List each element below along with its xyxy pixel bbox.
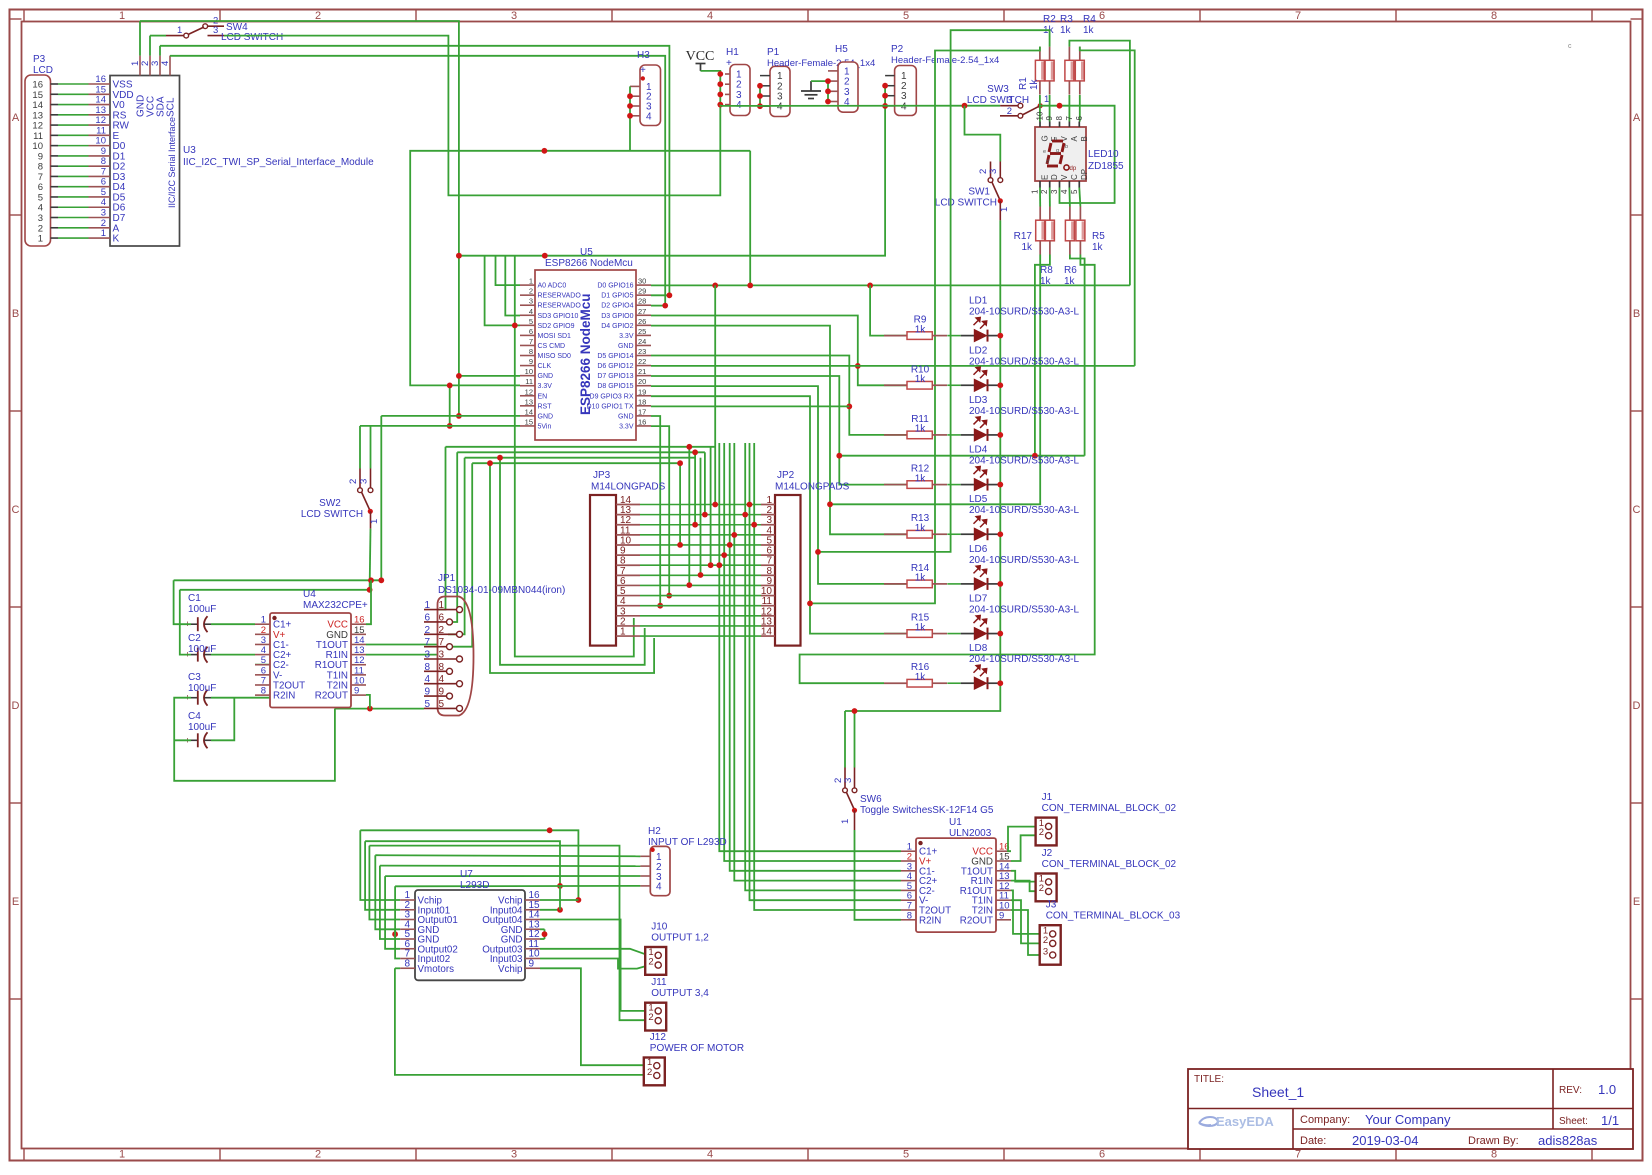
resistor R3 1k (1060, 14, 1074, 95)
header H3 (630, 50, 661, 126)
svg-text:P2: P2 (891, 44, 904, 55)
wire H2 line2 (380, 865, 641, 868)
svg-text:SW3: SW3 (987, 84, 1009, 95)
svg-text:1k: 1k (1029, 78, 1040, 90)
svg-text:3: 3 (438, 650, 444, 661)
svg-text:RESERVADO: RESERVADO (538, 303, 582, 310)
resistor R1 1k (1018, 47, 1044, 95)
svg-text:204-10SURD/S530-A3-L: 204-10SURD/S530-A3-L (969, 456, 1079, 467)
svg-text:H1: H1 (726, 47, 739, 58)
IC U4 MAX232CPE+ (255, 589, 368, 708)
svg-text:6: 6 (424, 612, 430, 623)
wire U7 pin9 to J12 pin1 (540, 968, 646, 1065)
svg-text:+: + (726, 58, 732, 69)
svg-text:3: 3 (988, 169, 999, 174)
svg-text:29: 29 (638, 287, 646, 296)
svg-text:U7: U7 (460, 869, 473, 880)
svg-text:1: 1 (119, 1149, 125, 1161)
svg-text:+: + (640, 65, 646, 76)
svg-text:INPUT OF L293D: INPUT OF L293D (648, 837, 727, 848)
wire H2 line3 drop (385, 876, 400, 949)
wire ESP pin1 (496, 256, 521, 285)
svg-text:K: K (113, 234, 120, 245)
svg-text:6: 6 (1099, 1149, 1105, 1161)
svg-text:1: 1 (1031, 189, 1040, 194)
svg-text:1k: 1k (915, 523, 927, 534)
wire H2 line1 drop (375, 855, 400, 929)
svg-text:26: 26 (638, 317, 646, 326)
terminal J12 POWER OF MOTOR (644, 1032, 744, 1085)
svg-text:J1: J1 (1042, 792, 1053, 803)
svg-text:LCD SWITCH: LCD SWITCH (935, 198, 997, 209)
svg-text:M14LONGPADS: M14LONGPADS (775, 482, 850, 493)
svg-text:1: 1 (999, 207, 1010, 212)
wire R2 bottom to LED10 (1049, 95, 1051, 122)
svg-text:8: 8 (907, 910, 912, 921)
svg-text:CS CMD: CS CMD (538, 343, 566, 350)
svg-text:2: 2 (424, 625, 430, 636)
svg-text:3: 3 (213, 25, 218, 36)
LED LD4 204-10SURD/S530-A3-L (947, 445, 1079, 491)
wire JP1 riser 6 (448, 452, 457, 622)
svg-text:b: b (1065, 144, 1068, 150)
svg-text:2: 2 (1007, 106, 1012, 117)
svg-text:A: A (12, 112, 20, 124)
svg-text:VCC: VCC (686, 49, 715, 64)
svg-text:22: 22 (638, 357, 646, 366)
svg-text:V: V (1060, 174, 1069, 180)
wire D6 join (651, 365, 1135, 367)
wire R3 bottom to LED10 (1068, 95, 1070, 122)
connector JP3 M14LONGPADS (590, 470, 666, 646)
wire U1 GND to J1 pin2 (1011, 835, 1042, 861)
wire stair s2 drop (365, 841, 400, 910)
wire ladder vert A (679, 463, 681, 545)
terminal J1 CON_TERMINAL_BLOCK_02 (1036, 792, 1177, 845)
junction U7 GND pins (392, 931, 398, 937)
svg-text:POWER OF MOTOR: POWER OF MOTOR (650, 1043, 744, 1054)
terminal J11 OUTPUT 3,4 (645, 977, 709, 1030)
svg-text:Header-Female-2.54_1x4: Header-Female-2.54_1x4 (767, 58, 875, 69)
svg-text:U5: U5 (580, 247, 593, 258)
wire U7 pin15 riser (540, 909, 560, 911)
svg-text:7: 7 (1065, 116, 1074, 121)
svg-text:LD2: LD2 (969, 345, 988, 356)
junctions H1 pins (717, 71, 723, 77)
svg-text:1: 1 (840, 819, 851, 824)
svg-text:C: C (1633, 504, 1641, 516)
wire U3 pin2 riser (149, 36, 151, 56)
wire U7 pin8 wire (395, 967, 400, 969)
switch SW1 LCD SWITCH (935, 162, 1010, 221)
svg-text:P1: P1 (767, 47, 780, 58)
svg-text:204-10SURD/S530-A3-L: 204-10SURD/S530-A3-L (969, 654, 1079, 665)
svg-text:8: 8 (1055, 116, 1064, 121)
svg-text:GND: GND (538, 373, 554, 380)
svg-text:H3: H3 (637, 50, 650, 61)
wire band B4 (472, 462, 680, 464)
svg-text:2: 2 (647, 1067, 652, 1078)
wire ESP 5Vin pin15 (360, 425, 520, 427)
svg-text:SCL: SCL (166, 97, 177, 117)
wire LCD SWITCH to H1 bus (224, 36, 720, 196)
wire ladder vert D (714, 285, 716, 504)
resistor R6 1k (1064, 207, 1085, 288)
svg-text:D: D (12, 700, 20, 712)
wire H2 line1 (375, 855, 640, 856)
svg-text:J10: J10 (651, 922, 668, 933)
wire D10 join (651, 405, 849, 407)
wire R2 top (818, 30, 1050, 552)
svg-text:e: e (1043, 149, 1046, 155)
svg-text:16: 16 (638, 417, 646, 426)
wire header pin4 net to SW3 (719, 105, 721, 106)
svg-text:SD3 GPIO10: SD3 GPIO10 (538, 313, 579, 320)
wire U7 Vmotors to J12 pin2 (395, 968, 646, 1075)
wire R1 bottom to LED10 (1039, 95, 1041, 122)
IC U3 IIC_I2C_TWI_SP_Serial_Interface_Module (89, 56, 375, 246)
svg-text:4: 4 (1060, 189, 1069, 194)
logo EasyEDA (1199, 1114, 1274, 1129)
svg-text:EasyEDA: EasyEDA (1216, 1114, 1274, 1129)
svg-text:Sheet:: Sheet: (1559, 1116, 1588, 1127)
svg-text:1k: 1k (1083, 25, 1095, 36)
header P1 Header-Female-2.54_1x4 (760, 47, 875, 117)
svg-text:P3: P3 (33, 54, 46, 65)
wire D0 feed R9 (870, 285, 907, 335)
wire R1 top (810, 47, 1040, 604)
svg-text:B: B (1080, 136, 1089, 141)
svg-text:c: c (1568, 43, 1572, 50)
wire SW1 to LED cathode bus (999, 220, 1001, 335)
terminal J2 CON_TERMINAL_BLOCK_02 (1036, 848, 1177, 901)
wire R6 bottom long (800, 255, 1095, 684)
svg-text:1k: 1k (1092, 242, 1104, 253)
title block (1188, 1069, 1633, 1149)
svg-text:18: 18 (638, 397, 646, 406)
wire ladder vert B (694, 452, 696, 524)
svg-text:24: 24 (638, 337, 646, 346)
svg-text:REV:: REV: (1559, 1085, 1582, 1096)
svg-text:9: 9 (999, 910, 1004, 921)
svg-text:R1: R1 (1018, 77, 1029, 90)
capacitor C2 100uF (185, 633, 217, 663)
svg-text:D9 GPIO3 RX: D9 GPIO3 RX (590, 393, 634, 400)
terminal J10 OUTPUT 1,2 (645, 922, 709, 975)
svg-text:100uF: 100uF (188, 683, 216, 694)
svg-text:M14LONGPADS: M14LONGPADS (591, 482, 666, 493)
svg-text:LCD: LCD (33, 65, 53, 76)
wire U1 R1OUT to J3 pin1 (1011, 890, 1046, 934)
wire riser x449 (449, 385, 451, 426)
svg-text:LD7: LD7 (969, 594, 988, 605)
svg-text:DS1034-01-09MBN044(iron): DS1034-01-09MBN044(iron) (438, 585, 565, 596)
wire ESP GND pin14 (381, 415, 520, 417)
wires P3 to U3 (58, 84, 89, 238)
wire H5 pin bus (827, 81, 829, 101)
svg-text:5: 5 (903, 1149, 909, 1161)
wire C1 left loop (174, 580, 191, 624)
svg-text:LCD SWITCH: LCD SWITCH (221, 32, 283, 43)
wire LED10 to R6 (1079, 188, 1080, 207)
svg-text:7: 7 (1295, 10, 1301, 22)
svg-text:13: 13 (525, 397, 533, 406)
svg-text:g: g (1056, 148, 1059, 154)
svg-text:SW1: SW1 (968, 187, 990, 198)
svg-text:7: 7 (529, 337, 533, 346)
wire SW3 to LED10 common (1040, 106, 1114, 203)
svg-text:U1: U1 (949, 817, 962, 828)
svg-text:28: 28 (638, 297, 646, 306)
svg-text:LCD SWITCH: LCD SWITCH (967, 95, 1029, 106)
wire U1 VCC to J1 pin1 (1008, 827, 1042, 852)
svg-text:8: 8 (1491, 10, 1497, 22)
wire C2 right to U4 pin4 (211, 654, 255, 656)
resistor R13 1k (884, 513, 947, 538)
wire U7 Input03 to J10 pin2 (540, 959, 648, 969)
wire stair s2 (365, 841, 560, 886)
svg-text:LED10: LED10 (1088, 149, 1119, 160)
svg-text:5Vin: 5Vin (538, 423, 552, 430)
svg-text:2: 2 (1039, 883, 1044, 894)
svg-text:4: 4 (901, 101, 907, 112)
svg-text:1k: 1k (1060, 25, 1072, 36)
svg-text:ESP8266 NodeMcu: ESP8266 NodeMcu (578, 293, 593, 415)
wire D3 to R10 (651, 316, 907, 386)
svg-text:2: 2 (348, 479, 359, 484)
wire ladder vert G (710, 447, 712, 565)
svg-text:CON_TERMINAL_BLOCK_03: CON_TERMINAL_BLOCK_03 (1046, 911, 1181, 922)
wire R5 bottom (1070, 255, 1085, 456)
svg-text:9: 9 (354, 686, 359, 697)
svg-text:C1: C1 (188, 593, 201, 604)
svg-text:LD5: LD5 (969, 494, 988, 505)
resistor R12 1k (884, 464, 947, 489)
svg-text:H5: H5 (835, 44, 848, 55)
svg-text:D4 GPIO2: D4 GPIO2 (601, 323, 633, 330)
svg-text:10: 10 (1036, 111, 1045, 120)
wire H3 to 3V3 net (410, 151, 750, 386)
svg-text:204-10SURD/S530-A3-L: 204-10SURD/S530-A3-L (969, 307, 1079, 318)
svg-text:3: 3 (1043, 947, 1048, 958)
svg-text:1: 1 (119, 10, 125, 22)
wire C2 left loop (180, 590, 191, 655)
wire to U1 pin5 (745, 443, 901, 890)
svg-text:R3: R3 (1060, 14, 1073, 25)
svg-text:GND: GND (618, 343, 634, 350)
svg-text:2: 2 (648, 1012, 653, 1023)
wire SCL net (170, 56, 665, 306)
svg-text:204-10SURD/S530-A3-L: 204-10SURD/S530-A3-L (969, 356, 1079, 367)
svg-text:C: C (12, 504, 20, 516)
wire ladder vert F (700, 458, 702, 575)
svg-text:5: 5 (438, 699, 444, 710)
wire GND line above U4 (174, 579, 382, 581)
svg-text:7: 7 (438, 637, 444, 648)
wire H2 line4 (395, 885, 640, 887)
svg-text:3: 3 (1050, 189, 1059, 194)
svg-text:IIC/I2C Serial Interface: IIC/I2C Serial Interface (167, 117, 177, 208)
svg-text:J12: J12 (650, 1032, 667, 1043)
junctions P2 pins (882, 83, 888, 89)
svg-text:21: 21 (638, 367, 646, 376)
wire H3 bus (629, 86, 631, 150)
IC U1 ULN2003 (901, 817, 1011, 932)
svg-text:D3 GPIO0: D3 GPIO0 (601, 313, 633, 320)
svg-text:C4: C4 (188, 711, 201, 722)
svg-text:R6: R6 (1064, 265, 1077, 276)
svg-text:MISO SD0: MISO SD0 (538, 353, 572, 360)
svg-text:6: 6 (1099, 10, 1105, 22)
wire JP1 riser 7 (448, 463, 472, 647)
svg-text:J2: J2 (1042, 848, 1053, 859)
wire C4 left (174, 739, 191, 741)
wire U7 Output03 to J10 pin1 (540, 949, 648, 956)
wire R2IN to JP1 pin5 (335, 708, 424, 710)
svg-text:D6 GPIO12: D6 GPIO12 (597, 363, 633, 370)
svg-text:Your Company: Your Company (1365, 1112, 1451, 1127)
power VCC (686, 49, 715, 71)
svg-text:D: D (1050, 174, 1059, 180)
svg-text:1: 1 (1044, 94, 1049, 105)
svg-text:3: 3 (843, 778, 854, 783)
wire GND net top (140, 21, 459, 376)
svg-text:1k: 1k (915, 672, 927, 683)
svg-text:IIC_I2C_TWI_SP_Serial_Interfac: IIC_I2C_TWI_SP_Serial_Interface_Module (183, 157, 374, 168)
wire to U1 pin7 (754, 443, 901, 910)
wire U1 T1OUT to J2 pin1 (1011, 871, 1041, 882)
wire JP1 riser 1 (437, 447, 446, 610)
wire D5 to R11 (651, 356, 907, 435)
svg-text:1k: 1k (915, 374, 927, 385)
switch SW2 LCD SWITCH (301, 469, 380, 529)
svg-text:Header-Female-2.54_1x4: Header-Female-2.54_1x4 (891, 55, 999, 66)
svg-text:SD2 GPIO9: SD2 GPIO9 (538, 323, 575, 330)
resistor R17 1k (1014, 207, 1045, 255)
wire SW2 pin2 up (359, 426, 361, 469)
svg-text:4: 4 (777, 102, 783, 113)
svg-text:5: 5 (424, 699, 430, 710)
svg-text:MOSI SD1: MOSI SD1 (538, 333, 572, 340)
svg-text:Toggle SwitchesSK-12F14 G5: Toggle SwitchesSK-12F14 G5 (860, 805, 994, 816)
wire U4 VCC riser (366, 580, 371, 624)
wire U1 R1IN to J2 pin2 (1011, 881, 1041, 892)
resistor R15 1k (884, 613, 947, 638)
svg-text:2: 2 (1040, 189, 1049, 194)
svg-text:LD6: LD6 (969, 544, 988, 555)
wire ladder vert E (688, 447, 690, 585)
svg-text:5: 5 (529, 317, 533, 326)
svg-text:EN: EN (538, 393, 548, 400)
svg-text:R5: R5 (1092, 231, 1105, 242)
svg-text:9: 9 (424, 687, 430, 698)
svg-text:R2OUT: R2OUT (960, 915, 993, 926)
wire D2 to SCL (651, 305, 665, 307)
wire C3 right to U4 pin5 (211, 665, 322, 698)
svg-text:R2IN: R2IN (273, 691, 295, 702)
svg-text:204-10SURD/S530-A3-L: 204-10SURD/S530-A3-L (969, 605, 1079, 616)
svg-text:100uF: 100uF (188, 604, 216, 615)
svg-text:14: 14 (525, 407, 533, 416)
svg-text:8: 8 (438, 662, 444, 673)
svg-text:B: B (12, 308, 19, 320)
wire C1 right to U4 pin1 (211, 623, 255, 625)
svg-text:H2: H2 (648, 826, 661, 837)
wire U7 right GND join (544, 929, 546, 939)
svg-text:Vchip: Vchip (498, 964, 523, 975)
svg-text:1: 1 (101, 228, 106, 239)
svg-text:U3: U3 (183, 145, 196, 156)
wire underJP3 line2 (500, 458, 645, 665)
wire GND to H5 (811, 80, 828, 82)
svg-text:2: 2 (648, 957, 653, 968)
capacitor C4 100uF (185, 711, 217, 748)
svg-text:5: 5 (903, 10, 909, 22)
wire VCC to H1 (701, 71, 721, 74)
IC U5 ESP8266 NodeMcu (520, 247, 651, 440)
resistor R9 1k (884, 315, 947, 340)
svg-text:R17: R17 (1014, 231, 1033, 242)
resistor R8 1k (1040, 207, 1054, 288)
svg-text:D7 GPIO13: D7 GPIO13 (597, 373, 633, 380)
svg-text:1: 1 (529, 277, 533, 286)
capacitor C1 100uF (185, 593, 217, 632)
wire underJP3 line1 (490, 463, 654, 673)
wire band B2 (457, 451, 705, 453)
wire C4 right (211, 698, 234, 741)
wire U1 T2IN to J3 pin3 (1011, 910, 1046, 955)
svg-text:GND: GND (618, 413, 634, 420)
wire LED bus to SW6 (854, 711, 856, 768)
wire stair s1 drop (360, 830, 400, 900)
svg-text:204-10SURD/S530-A3-L: 204-10SURD/S530-A3-L (969, 505, 1079, 516)
wire GND17 down (651, 416, 660, 606)
svg-text:R8: R8 (1040, 265, 1053, 276)
wire H3 drop to D0 (749, 151, 751, 286)
wire V+ line above U4 (180, 589, 370, 591)
wire to U1 pin1 (719, 443, 901, 851)
svg-text:9: 9 (1045, 116, 1054, 121)
header H5 (828, 44, 858, 112)
svg-text:CON_TERMINAL_BLOCK_02: CON_TERMINAL_BLOCK_02 (1042, 859, 1177, 870)
wire 5Vin to SW2 (370, 426, 372, 469)
wire LED cathode bus (845, 336, 1000, 711)
wire to U1 pin3 (730, 443, 901, 871)
wire R8 bottom long (1035, 255, 1050, 456)
svg-text:1k: 1k (1021, 242, 1033, 253)
svg-text:6: 6 (529, 327, 533, 336)
svg-text:LD8: LD8 (969, 643, 988, 654)
wire D1 to SDA (651, 294, 669, 296)
svg-text:3.3V: 3.3V (538, 383, 553, 390)
svg-text:23: 23 (638, 347, 646, 356)
svg-text:G: G (1041, 135, 1050, 141)
svg-text:6: 6 (1075, 116, 1084, 121)
wires JP3 to JP2 ladder (640, 505, 761, 637)
svg-text:2: 2 (1043, 935, 1048, 946)
LED LD6 204-10SURD/S530-A3-L (947, 544, 1079, 590)
svg-text:D0 GPIO16: D0 GPIO16 (597, 283, 633, 290)
wire LED10 to R17 (1039, 188, 1041, 207)
svg-text:1: 1 (177, 25, 182, 36)
svg-text:4: 4 (646, 111, 652, 122)
svg-text:d: d (1046, 159, 1049, 165)
switch SW3 LCD SWITCH (967, 84, 1049, 118)
svg-text:4: 4 (707, 1149, 713, 1161)
svg-text:SW2: SW2 (319, 498, 341, 509)
svg-text:MAX232CPE+: MAX232CPE+ (303, 600, 368, 611)
terminal J3 CON_TERMINAL_BLOCK_03 (1040, 900, 1181, 965)
